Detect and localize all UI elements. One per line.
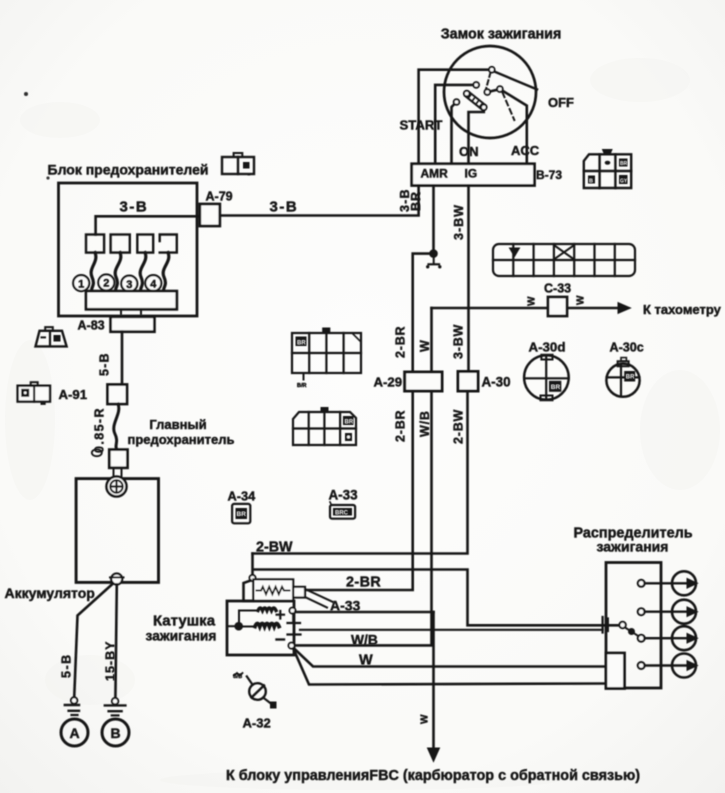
svg-text:A-29: A-29 xyxy=(374,375,403,390)
svg-text:Главный: Главный xyxy=(149,417,206,432)
svg-text:BR: BR xyxy=(345,420,354,426)
svg-text:ACC: ACC xyxy=(511,143,540,158)
svg-text:3-BW: 3-BW xyxy=(452,204,466,240)
svg-text:A-33: A-33 xyxy=(330,598,361,614)
svg-text:A-30d: A-30d xyxy=(529,340,566,355)
svg-text:2: 2 xyxy=(103,278,109,290)
svg-text:START: START xyxy=(400,118,443,133)
svg-text:Аккумулятор: Аккумулятор xyxy=(5,585,95,601)
svg-text:W: W xyxy=(576,295,587,305)
svg-text:W: W xyxy=(359,653,373,669)
svg-text:0.85-R: 0.85-R xyxy=(93,407,107,453)
svg-text:2-BW: 2-BW xyxy=(256,540,293,556)
svg-text:ON: ON xyxy=(459,144,479,159)
svg-text:W: W xyxy=(527,296,538,306)
svg-text:4: 4 xyxy=(150,278,157,290)
svg-text:W/B: W/B xyxy=(418,410,432,437)
svg-text:OFF: OFF xyxy=(548,95,574,110)
svg-text:C-33: C-33 xyxy=(544,282,571,296)
svg-text:A-83: A-83 xyxy=(78,319,105,333)
svg-text:3-BW: 3-BW xyxy=(452,324,466,359)
svg-text:Блок предохранителей: Блок предохранителей xyxy=(48,162,209,178)
svg-text:W: W xyxy=(418,340,432,352)
svg-text:B: B xyxy=(589,179,593,185)
svg-text:А-34: А-34 xyxy=(228,489,257,504)
svg-text:BR: BR xyxy=(237,511,247,518)
svg-text:A-79: A-79 xyxy=(206,190,233,204)
svg-text:A-30: A-30 xyxy=(482,375,511,390)
svg-text:2-BR: 2-BR xyxy=(346,575,381,591)
svg-text:2-BW: 2-BW xyxy=(452,409,466,444)
svg-text:S/B: S/B xyxy=(233,674,242,680)
svg-text:IG: IG xyxy=(465,167,478,181)
svg-text:1: 1 xyxy=(78,278,84,290)
svg-text:BR: BR xyxy=(620,161,628,167)
svg-text:W/B: W/B xyxy=(351,633,378,648)
svg-text:BR: BR xyxy=(551,384,561,391)
svg-text:5-B: 5-B xyxy=(60,653,74,678)
svg-text:W: W xyxy=(420,714,431,724)
svg-text:B: B xyxy=(110,725,120,741)
svg-text:К блоку управленияFBC (карбюра: К блоку управленияFBC (карбюратор с обра… xyxy=(226,768,640,784)
svg-text:15-BY: 15-BY xyxy=(104,641,118,681)
svg-text:BRC: BRC xyxy=(335,511,349,517)
svg-text:2-BR: 2-BR xyxy=(394,326,408,358)
svg-text:предохранитель: предохранитель xyxy=(128,432,235,447)
svg-text:зажигания: зажигания xyxy=(146,629,217,644)
svg-text:А-33: А-33 xyxy=(329,488,358,503)
svg-text:А-32: А-32 xyxy=(243,716,271,731)
svg-text:A: A xyxy=(69,725,79,741)
svg-text:GY: GY xyxy=(620,179,628,185)
svg-text:Катушка: Катушка xyxy=(153,613,216,630)
svg-text:A-91: A-91 xyxy=(59,387,88,402)
svg-text:К тахометру: К тахометру xyxy=(643,302,722,317)
svg-text:B-73: B-73 xyxy=(536,168,562,182)
svg-text:зажигания: зажигания xyxy=(597,539,669,555)
svg-text:2-BR: 2-BR xyxy=(394,410,408,442)
svg-text:3-B: 3-B xyxy=(120,199,149,216)
svg-text:BR: BR xyxy=(297,341,306,347)
svg-text:BR: BR xyxy=(626,375,635,381)
svg-text:Замок зажигания: Замок зажигания xyxy=(441,27,562,43)
svg-text:3: 3 xyxy=(126,279,132,291)
svg-text:AMR: AMR xyxy=(421,167,449,181)
svg-text:B/R: B/R xyxy=(297,383,307,389)
svg-text:3-B: 3-B xyxy=(270,199,299,216)
svg-text:А-30с: А-30с xyxy=(610,341,644,355)
svg-text:BR: BR xyxy=(409,191,423,211)
svg-text:5-B: 5-B xyxy=(98,352,112,376)
